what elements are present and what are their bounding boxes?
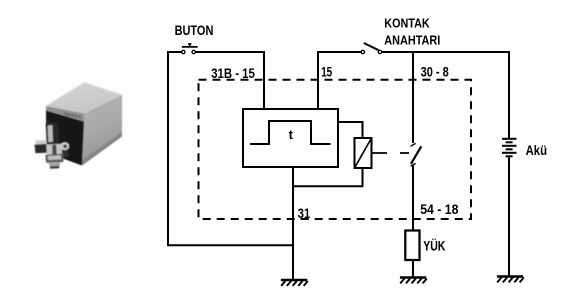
pulse waveform <box>250 121 331 144</box>
svg-text:31B - 15: 31B - 15 <box>211 65 255 81</box>
relay edge highlight <box>46 83 122 107</box>
kontak anahtari switch S2 <box>361 43 382 54</box>
wire: left loop (button left terminal, left vertical, bottom horizontal to node 31) <box>168 52 293 245</box>
mechanical linkage (dashed) coil to contact <box>372 152 410 154</box>
svg-text:ANAHTARI: ANAHTARI <box>384 33 440 48</box>
wire: battery to ground <box>508 158 510 277</box>
pushbutton S1 <box>182 44 198 54</box>
ground (load) <box>400 278 427 284</box>
wire: timer ground, node 31 vertical <box>292 167 294 280</box>
svg-text:54 - 18: 54 - 18 <box>420 202 459 217</box>
svg-text:Akü: Akü <box>526 142 547 158</box>
wire: YUK to ground <box>412 260 414 278</box>
dashed control unit box <box>199 80 472 219</box>
relay right face <box>82 95 122 166</box>
svg-text:BUTON: BUTON <box>175 23 214 38</box>
svg-text:YÜK: YÜK <box>423 239 445 254</box>
wire: contact to YUK, terminal 54-18 <box>412 166 414 231</box>
pin 1 (upper vertical blade) <box>46 122 60 144</box>
svg-text:KONTAK: KONTAK <box>384 15 430 30</box>
pin 4 (right capped pin) <box>60 142 69 150</box>
wire: button right terminal to timer input 31B-15 <box>196 52 264 110</box>
battery Aku <box>502 139 517 157</box>
relay front face upper gray band <box>46 106 84 122</box>
relay coil K1 <box>355 138 372 168</box>
ground (node 31) <box>281 280 308 286</box>
pin 2 (left blade) <box>35 140 47 145</box>
ground (battery) <box>497 277 524 283</box>
svg-text:31: 31 <box>298 206 311 221</box>
pin 5 (bottom blade) <box>46 154 64 163</box>
svg-text:15: 15 <box>321 64 332 79</box>
wire: terminal 30-8 vertical <box>412 52 414 143</box>
relay top face <box>46 83 122 114</box>
load resistor YUK <box>405 231 419 261</box>
wire: switch to battery top <box>382 52 509 138</box>
relay front face black base <box>46 111 84 166</box>
relay right face bottom shading <box>82 132 122 166</box>
pin 3 (middle bright block) <box>46 144 62 155</box>
svg-text:t: t <box>289 127 294 142</box>
svg-text:30 - 8: 30 - 8 <box>421 65 450 80</box>
wire: timer output to relay coil top <box>338 122 363 138</box>
pin 6 (lowest tip) <box>49 162 61 169</box>
relay contact blade <box>411 143 422 166</box>
wire: coil return to node 31 <box>293 168 363 186</box>
timer block U1 <box>243 109 338 167</box>
wire: terminal 15 branch from kontak switch to timer <box>318 52 361 110</box>
